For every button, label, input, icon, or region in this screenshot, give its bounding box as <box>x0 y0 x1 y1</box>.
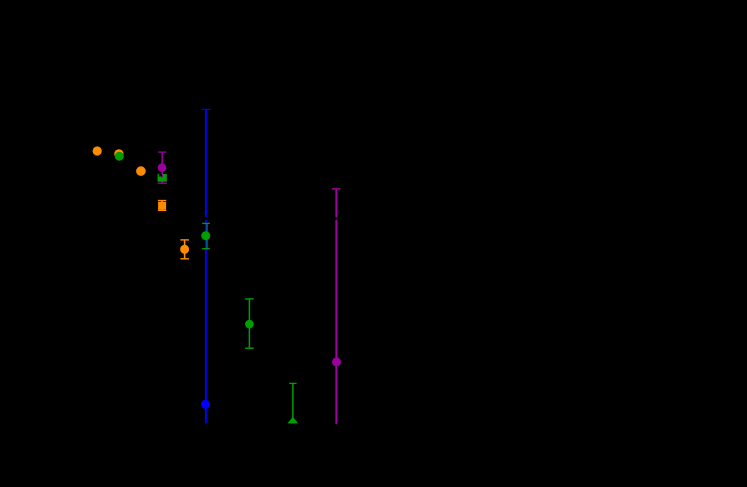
marker A (orange circle) <box>93 146 102 155</box>
black reference line crossing bars (creates gaps) <box>60 217 440 220</box>
errorbar F (orange) with square marker <box>158 201 166 211</box>
errorbar J (green) with circle marker <box>245 299 254 348</box>
marker D circle on top <box>158 163 167 172</box>
marker E (green square) <box>158 174 167 182</box>
marker I circle (blue) <box>201 400 210 409</box>
errorbar I (blue, tall) <box>202 109 210 423</box>
errorbar K (green) with triangle marker <box>287 383 298 423</box>
black notch over square <box>159 174 162 177</box>
marker B1 (orange circle, under) <box>114 149 123 158</box>
errorbar H (green, over blue line) with circle marker <box>201 223 210 248</box>
errorbar D (purple) with circle marker <box>158 152 167 183</box>
errorbar G (orange) with circle marker <box>180 240 189 259</box>
marker B2 (green circle, over) <box>115 152 124 161</box>
marker M circle (magenta) <box>332 357 341 366</box>
purple line over square top half <box>161 160 163 178</box>
errorbar M (magenta, tall) <box>332 189 341 424</box>
marker C (orange circle) <box>136 166 146 176</box>
